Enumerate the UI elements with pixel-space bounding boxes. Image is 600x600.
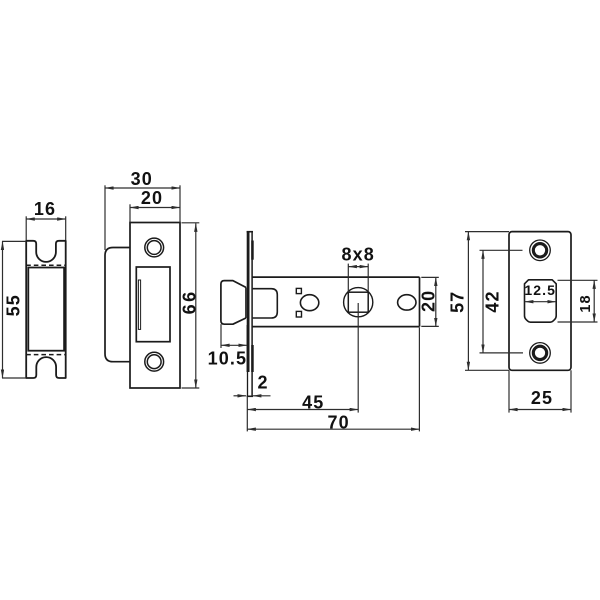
svg-text:12.5: 12.5: [524, 282, 556, 298]
svg-text:66: 66: [179, 289, 199, 314]
svg-text:42: 42: [483, 290, 503, 312]
svg-text:16: 16: [34, 199, 56, 219]
svg-text:8x8: 8x8: [342, 244, 375, 264]
svg-text:20: 20: [141, 188, 163, 208]
svg-text:45: 45: [302, 392, 324, 412]
svg-text:20: 20: [418, 290, 438, 312]
svg-text:30: 30: [131, 169, 153, 189]
svg-text:25: 25: [531, 388, 553, 408]
svg-text:57: 57: [447, 291, 467, 313]
svg-text:2: 2: [257, 373, 268, 393]
svg-text:70: 70: [327, 412, 349, 432]
svg-text:18: 18: [578, 294, 594, 312]
svg-text:55: 55: [3, 294, 23, 316]
svg-text:10.5: 10.5: [208, 349, 247, 369]
